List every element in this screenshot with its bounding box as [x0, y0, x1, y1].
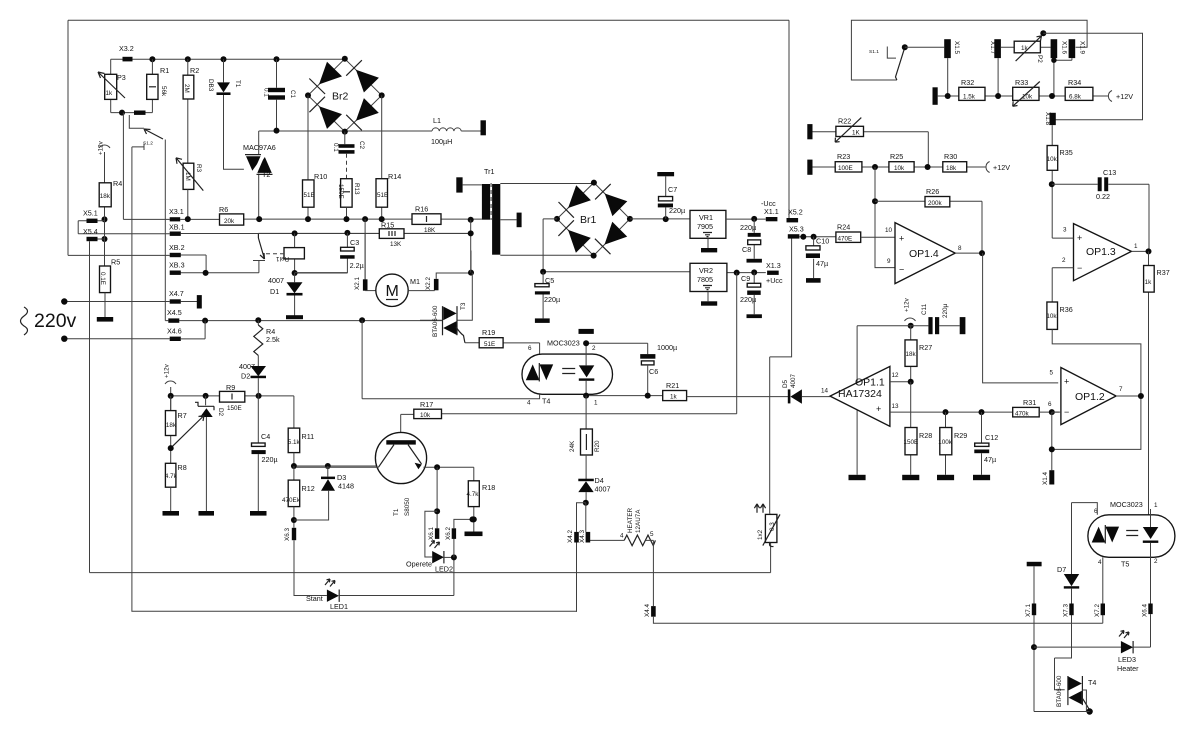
terminal X5.3	[788, 234, 800, 238]
svg-text:T2: T2	[262, 170, 270, 179]
ground bar below R8	[163, 511, 180, 516]
svg-text:1k: 1k	[106, 90, 114, 97]
regulator VR2 7805	[690, 263, 727, 291]
terminal X3.2	[123, 57, 133, 62]
svg-text:4007: 4007	[268, 276, 284, 285]
resistor R19	[465, 343, 540, 364]
svg-text:51E: 51E	[304, 192, 315, 199]
svg-text:HEATER: HEATER	[627, 507, 634, 533]
svg-text:OP1.4: OP1.4	[909, 248, 939, 260]
svg-text:R13: R13	[353, 183, 360, 195]
svg-text:220µ: 220µ	[942, 303, 949, 318]
terminal X5.4	[87, 237, 98, 241]
resistor R4 18k	[104, 152, 106, 266]
resistor R34	[1065, 87, 1093, 100]
svg-text:1M: 1M	[184, 172, 191, 181]
resistor R7	[170, 396, 172, 463]
wire S1.2 throw2 down long	[131, 147, 133, 611]
svg-text:T4: T4	[542, 397, 550, 406]
wire X4.3 chain	[586, 503, 624, 543]
terminal X4.3	[586, 532, 591, 543]
wire X2.2 top jog	[436, 251, 471, 279]
svg-text:T1: T1	[393, 508, 400, 516]
svg-text:−: −	[1077, 263, 1082, 273]
resistor R24	[836, 232, 861, 242]
svg-text:20k: 20k	[224, 218, 235, 225]
diac DB3 T1	[224, 59, 244, 169]
terminal X1.7	[994, 39, 1001, 58]
terminal X4.2	[574, 532, 579, 543]
capacitor C13	[1052, 184, 1149, 251]
svg-text:DB3: DB3	[207, 79, 214, 92]
svg-text:0.1E: 0.1E	[99, 272, 106, 285]
svg-text:R8: R8	[178, 463, 187, 472]
wire XB.2 row y255	[68, 255, 206, 273]
terminal X4.5	[168, 318, 179, 322]
svg-text:1: 1	[1134, 243, 1138, 250]
svg-text:S8050: S8050	[404, 497, 411, 516]
svg-text:XB.1: XB.1	[169, 223, 185, 232]
capacitor C7	[657, 172, 674, 176]
diode D7	[1064, 574, 1079, 586]
resistor R21	[663, 391, 687, 401]
svg-text:4148: 4148	[338, 482, 354, 491]
svg-text:5: 5	[650, 531, 654, 538]
svg-text:R20: R20	[594, 440, 601, 452]
wire rel1 bottom row y273	[295, 272, 348, 274]
svg-text:220µ: 220µ	[262, 455, 278, 464]
svg-text:Rel1: Rel1	[276, 255, 289, 262]
svg-text:14: 14	[821, 388, 829, 395]
resistor R16	[412, 214, 441, 225]
diode D2 4007 vertical chain R4 2.5k	[257, 320, 259, 325]
wire primary riser x470.7	[470, 220, 472, 273]
wire X5.4 down long	[89, 241, 91, 572]
svg-text:R3: R3	[195, 164, 202, 173]
svg-text:X1.1: X1.1	[764, 207, 779, 216]
svg-text:C10: C10	[816, 237, 829, 246]
potentiometer P2	[1001, 46, 1051, 48]
svg-text:R23: R23	[837, 152, 850, 161]
resistor R26	[875, 201, 982, 253]
wire X4.6 row	[64, 321, 205, 339]
terminal X5.1	[87, 219, 98, 223]
svg-text:C4: C4	[261, 432, 270, 441]
wire X4.4 long row	[653, 617, 1102, 624]
svg-text:Tr1: Tr1	[484, 167, 495, 176]
svg-text:BTA06-600: BTA06-600	[1056, 675, 1063, 707]
svg-text:R37: R37	[1157, 268, 1170, 277]
resistor R11	[288, 428, 300, 453]
capacitor C6 1000u	[640, 354, 655, 359]
svg-text:220µ: 220µ	[740, 295, 756, 304]
svg-text:2M: 2M	[183, 84, 190, 93]
capacitor C5	[542, 272, 544, 319]
wire XB row y233.7	[78, 233, 379, 235]
svg-text:4: 4	[527, 400, 531, 407]
svg-text:47µ: 47µ	[816, 259, 828, 268]
svg-text:R5: R5	[111, 258, 120, 267]
svg-text:1K: 1K	[852, 130, 861, 137]
terminal bar X7.1 top	[1027, 562, 1042, 567]
svg-text:M: M	[386, 283, 399, 300]
terminal X6.1	[435, 528, 439, 539]
wire T1 emitter chain down	[436, 467, 438, 528]
svg-text:1: 1	[1154, 502, 1158, 509]
resistor R2	[187, 59, 189, 163]
svg-text:S1.2: S1.2	[143, 141, 153, 147]
wire Br1 left to C5 riser	[543, 219, 557, 272]
resistor R27	[910, 326, 912, 382]
heater 12AU7A zigzag	[624, 535, 655, 546]
wire OP1.3 pin3 stub	[1052, 237, 1073, 239]
svg-text:10k: 10k	[420, 412, 431, 419]
svg-text:6: 6	[528, 345, 532, 352]
supply +12v at R4	[99, 145, 110, 148]
resistor R23	[813, 166, 987, 168]
triac T4	[1069, 677, 1082, 705]
svg-text:R15: R15	[381, 221, 394, 230]
node top rail junctions	[149, 56, 155, 62]
wire T4 pin1 row y395.6	[586, 394, 663, 395]
wire X5.3 row to R24	[799, 236, 836, 238]
terminal X1.4	[1049, 470, 1054, 484]
wire P2 wiper to X1.8 feed	[1043, 33, 1142, 120]
svg-text:X7.1: X7.1	[1025, 604, 1032, 617]
svg-text:R31: R31	[1023, 398, 1036, 407]
resistor R5	[100, 266, 111, 293]
resistor R13	[341, 179, 353, 208]
ground bar OP1.1	[849, 475, 866, 480]
resistor R20	[585, 396, 587, 429]
capacitor C8	[753, 219, 755, 259]
svg-text:HA17324: HA17324	[838, 388, 882, 400]
svg-text:X6.4: X6.4	[1142, 604, 1149, 617]
ground bar below D2	[199, 511, 215, 516]
wire VR2 row y273	[543, 271, 766, 274]
wire T5 pin6 jog to D7	[1072, 503, 1098, 574]
svg-text:0.1: 0.1	[332, 143, 339, 152]
shunt regulator D2	[205, 396, 207, 405]
svg-text:2: 2	[1062, 257, 1066, 264]
terminal X7.3	[1069, 604, 1073, 616]
svg-text:0.1: 0.1	[263, 88, 270, 97]
svg-text:R9: R9	[226, 383, 235, 392]
svg-text:220µ: 220µ	[669, 206, 685, 215]
svg-text:18k: 18k	[100, 193, 111, 200]
svg-text:C1: C1	[289, 90, 296, 99]
wire LED2 bracket	[425, 511, 437, 557]
svg-text:X1.3: X1.3	[766, 261, 781, 270]
svg-text:200k: 200k	[928, 200, 943, 207]
capacitor C11	[928, 317, 932, 334]
resistor R30	[943, 162, 967, 172]
resistor R18	[473, 467, 475, 533]
wire lower rail y131	[259, 130, 432, 132]
terminal X2.1	[363, 279, 368, 290]
terminal X1.8	[1050, 113, 1056, 125]
svg-text:C3: C3	[350, 238, 359, 247]
capacitor C4	[257, 396, 259, 443]
svg-text:150E: 150E	[227, 405, 242, 412]
svg-text:R28: R28	[919, 431, 932, 440]
svg-text:+Ucc: +Ucc	[766, 276, 783, 285]
svg-text:R10: R10	[314, 172, 327, 181]
svg-text:X5.3: X5.3	[789, 225, 804, 234]
svg-text:2: 2	[592, 345, 596, 352]
svg-text:R6: R6	[219, 205, 228, 214]
svg-text:+: +	[1077, 233, 1082, 243]
wire OP1.3 pin2 to R36	[1052, 268, 1073, 302]
svg-text:51E: 51E	[377, 192, 388, 199]
wire OP1.1 power down	[856, 326, 858, 475]
svg-text:Stant: Stant	[306, 594, 323, 603]
resistor R29	[945, 412, 947, 475]
svg-text:R14: R14	[388, 172, 401, 181]
supply +12V arc right	[1108, 91, 1112, 102]
svg-text:R26: R26	[926, 187, 939, 196]
wire Tr1 secondary top to Br1	[500, 183, 594, 185]
resistor R35	[1051, 125, 1053, 238]
supply +12v at R9	[165, 381, 176, 384]
svg-text:MOC3023: MOC3023	[1110, 500, 1143, 509]
terminal X6.3	[292, 528, 296, 540]
svg-text:18K: 18K	[424, 227, 436, 234]
svg-text:C13: C13	[1103, 168, 1116, 177]
terminal X5.2	[787, 218, 799, 222]
svg-text:13K: 13K	[390, 241, 402, 248]
wire X5.1 stub	[78, 221, 104, 234]
svg-text:XB.2: XB.2	[169, 243, 185, 252]
svg-text:P3: P3	[117, 73, 126, 82]
svg-text:100k: 100k	[938, 439, 953, 446]
svg-text:0.22: 0.22	[1096, 192, 1110, 201]
svg-text:X6.3: X6.3	[284, 528, 291, 541]
resistor R25	[889, 162, 914, 172]
terminal bar center tap	[517, 213, 522, 228]
svg-text:X1.6: X1.6	[1061, 41, 1068, 54]
capacitor C3	[295, 233, 348, 273]
wire X2.1 riser	[364, 234, 366, 280]
terminal bar Tr1 primary top	[456, 177, 462, 192]
svg-text:X1.4: X1.4	[1042, 472, 1049, 485]
svg-text:C5: C5	[545, 276, 554, 285]
svg-text:6.8k: 6.8k	[1069, 94, 1082, 101]
wire XB.3 row y272.6	[181, 261, 259, 273]
resistor R36	[1047, 302, 1058, 329]
node P3/S1.2 junction	[119, 110, 125, 116]
svg-text:D1: D1	[270, 287, 279, 296]
opamp OP1.3	[1074, 224, 1132, 281]
svg-text:+12V: +12V	[1116, 92, 1133, 101]
svg-text:51E: 51E	[484, 341, 495, 348]
wire T5 pin1	[1150, 509, 1152, 527]
capacitor C2	[344, 132, 346, 145]
svg-text:X3.1: X3.1	[169, 207, 184, 216]
terminal XB.3	[170, 271, 181, 275]
svg-text:C7: C7	[668, 185, 677, 194]
resistor R3 adjustable	[183, 163, 194, 189]
wire X4.2 chain	[577, 503, 586, 612]
terminal X4.4	[651, 606, 656, 617]
svg-text:4: 4	[620, 533, 624, 540]
svg-text:0.3: 0.3	[769, 522, 776, 531]
svg-text:X6.1: X6.1	[428, 527, 435, 540]
inductor L1	[432, 128, 461, 131]
opamp OP1.1	[830, 366, 890, 426]
svg-text:X1.5: X1.5	[953, 41, 960, 54]
svg-text:R12: R12	[302, 484, 315, 493]
svg-text:LED1: LED1	[330, 602, 348, 611]
wire OP1.1 pin12	[890, 381, 911, 383]
svg-text:470E: 470E	[838, 236, 853, 243]
svg-text:X2.1: X2.1	[354, 277, 361, 290]
wire OP1.4 out down to OP1.2	[983, 253, 1059, 383]
potentiometer P3	[110, 59, 112, 112]
svg-text:100E: 100E	[838, 165, 853, 172]
svg-text:X4.6: X4.6	[167, 327, 182, 336]
svg-text:LED3: LED3	[1118, 655, 1136, 664]
terminal X6.2	[444, 556, 454, 558]
bridge Br1	[554, 180, 633, 259]
svg-text:S1.1: S1.1	[869, 49, 879, 55]
svg-text:C11: C11	[921, 303, 928, 315]
wire T1 base row y466	[294, 465, 379, 467]
wire Tr1 center tap	[500, 219, 516, 221]
svg-text:+12v: +12v	[904, 297, 911, 312]
svg-text:12AU7A: 12AU7A	[635, 509, 642, 533]
wire S1.2 blade down long	[164, 140, 166, 321]
svg-text:R33: R33	[1015, 78, 1028, 87]
diode D5 4007	[788, 389, 791, 403]
svg-text:220µ: 220µ	[740, 223, 756, 232]
svg-text:D7: D7	[1057, 565, 1066, 574]
svg-text:T5: T5	[1121, 560, 1129, 569]
wire border right drop to X5.2	[788, 20, 790, 218]
svg-text:T3: T3	[460, 302, 467, 310]
LED LED2	[432, 551, 444, 563]
regulator VR1 7905	[690, 210, 726, 238]
svg-text:7905: 7905	[697, 222, 713, 231]
wire long row y572.6	[90, 572, 771, 574]
terminal X1.3	[767, 271, 779, 275]
svg-text:X3.2: X3.2	[119, 44, 134, 53]
svg-text:D2: D2	[241, 372, 250, 381]
svg-text:10: 10	[885, 227, 893, 234]
svg-text:OP1.2: OP1.2	[1075, 391, 1105, 403]
terminal X2.2	[408, 290, 435, 292]
svg-text:X1.8: X1.8	[1044, 112, 1051, 125]
switch relay contact	[253, 260, 265, 262]
wire OP1.2 pin6 stub	[1052, 411, 1061, 413]
svg-text:4: 4	[1098, 559, 1102, 566]
wire OP1.2 output	[1116, 395, 1141, 397]
svg-text:R7: R7	[178, 411, 187, 420]
wire S1.1 to X1.5	[905, 46, 944, 48]
wire Tr1 secondary bottom to Br1	[500, 254, 593, 256]
svg-text:Br2: Br2	[332, 91, 349, 103]
svg-text:P2: P2	[1036, 55, 1043, 63]
svg-text:R17: R17	[420, 400, 433, 409]
LED LED1	[327, 590, 339, 602]
wire T3 right riser	[457, 273, 472, 321]
svg-text:1x2: 1x2	[757, 529, 764, 540]
motor M1	[365, 290, 376, 292]
terminal X4.6	[170, 337, 181, 341]
resistor R9	[220, 391, 245, 402]
svg-text:+12v: +12v	[164, 363, 171, 378]
svg-text:-Ucc: -Ucc	[761, 199, 776, 208]
svg-text:R1: R1	[160, 66, 169, 75]
ground bar below C4	[250, 511, 267, 516]
svg-text:+12v: +12v	[98, 140, 105, 155]
svg-text:220v: 220v	[34, 310, 77, 332]
svg-text:10k: 10k	[1046, 313, 1057, 320]
wire R32 row y96	[938, 95, 1109, 97]
resistor R14	[381, 95, 383, 219]
resistor R33 adjustable	[1013, 87, 1039, 100]
svg-text:R22: R22	[838, 117, 851, 126]
terminal X1.1	[766, 217, 778, 221]
svg-text:56k: 56k	[160, 86, 167, 97]
diode D1 4007	[294, 273, 296, 316]
svg-text:4007: 4007	[790, 373, 797, 388]
wire T5 pin2 chain	[1150, 543, 1152, 647]
svg-text:X4.2: X4.2	[567, 530, 574, 543]
svg-text:R21: R21	[666, 381, 679, 390]
resistor R31	[1013, 407, 1039, 417]
svg-text:1000µ: 1000µ	[657, 343, 677, 352]
wire VR1 out to X1.1	[726, 218, 766, 220]
svg-text:10k: 10k	[1047, 156, 1058, 163]
svg-text:R32: R32	[961, 78, 974, 87]
LED LED3	[1121, 641, 1133, 653]
svg-text:9: 9	[887, 258, 891, 265]
wire top rail y59	[111, 58, 345, 60]
wire bottom row y711.5	[1034, 711, 1090, 713]
svg-text:XB.3: XB.3	[169, 261, 185, 270]
svg-text:8: 8	[958, 245, 962, 252]
svg-text:47µ: 47µ	[984, 455, 996, 464]
wire P3 bottom row	[111, 112, 153, 114]
svg-text:2.5k: 2.5k	[266, 335, 280, 344]
terminal X7.1	[1032, 604, 1036, 616]
svg-text:−: −	[899, 265, 904, 275]
svg-text:Heater: Heater	[1117, 664, 1139, 673]
wire OP1.4 output	[955, 252, 982, 254]
resistor R1	[151, 59, 153, 112]
triac T3	[420, 319, 442, 321]
wire rel row y233.4	[258, 232, 470, 234]
terminal bar T4 pin2 top	[579, 329, 594, 334]
svg-text:R2: R2	[190, 66, 199, 75]
capacitor C1	[276, 59, 278, 130]
wire T5 pin4 to X7.2	[1102, 557, 1104, 623]
svg-text:MOC3023: MOC3023	[547, 339, 580, 348]
terminal X1.6	[1051, 39, 1058, 58]
wire +12v row y325.7	[857, 325, 928, 327]
svg-text:VR1: VR1	[699, 213, 713, 222]
supply +12v at OP1.1	[905, 318, 916, 321]
wire riser R15/X2.1 x365	[364, 219, 366, 279]
svg-text:10k: 10k	[894, 165, 905, 172]
resistor R6	[220, 214, 244, 225]
svg-text:220µ: 220µ	[544, 295, 560, 304]
capacitor C9	[753, 272, 755, 314]
resistor R28	[910, 382, 912, 475]
terminal bar left of R32	[933, 87, 938, 105]
svg-text:R30: R30	[944, 152, 957, 161]
